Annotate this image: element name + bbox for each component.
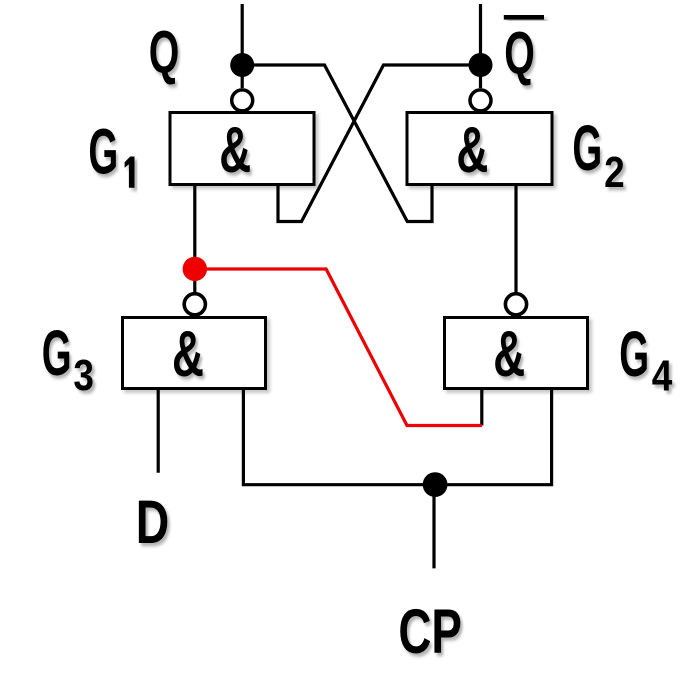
wire: cross-couple from node Qbar to G1 bottom input (278, 65, 481, 222)
inverter bubble at G2 top input (470, 90, 491, 111)
svg-text:3: 3 (73, 350, 94, 400)
svg-text:CP: CP (398, 596, 462, 667)
svg-text:Q: Q (149, 18, 180, 85)
wire: G4 bottom-left stub (480, 388, 483, 425)
inverter bubble at G3 top input (184, 294, 205, 315)
wire: D input stub below G3 (157, 388, 160, 473)
label G4 (619, 319, 673, 400)
label Qbar Q glyph (504, 19, 535, 86)
node CP junction dot (423, 472, 448, 497)
ampersand label of G2 (456, 114, 488, 187)
svg-text:&: & (172, 318, 204, 391)
wire: G1 output down to G3 input bubble (193, 185, 196, 301)
svg-text:&: & (493, 318, 525, 391)
inverter bubble at G1 top input (232, 90, 253, 111)
wire: cross-couple from node Q to G2 bottom input (242, 65, 432, 222)
svg-text:&: & (219, 114, 251, 187)
wire: G2 output down to G4 input bubble (514, 185, 517, 301)
svg-text:4: 4 (652, 351, 673, 401)
red node dot at G1 output (183, 257, 207, 281)
gate G1 box (NAND &) (170, 113, 314, 185)
node Q junction dot (230, 53, 254, 77)
svg-text:G: G (88, 116, 118, 188)
wire: CP bus G3 right stub, horizontal run, G4 right stub (243, 388, 551, 484)
wire: Q output lead (top left vertical) (241, 4, 244, 88)
gate G2 box (NAND &) (407, 113, 552, 185)
label G1 (88, 116, 134, 188)
label G3 (42, 318, 94, 400)
node Qbar junction dot (469, 53, 493, 77)
wire: red feedback from G1 output node to G4 input (highlighted) (195, 269, 482, 426)
gate G4 box (NAND &) (445, 318, 588, 389)
svg-text:&: & (456, 114, 488, 187)
label D (136, 489, 169, 557)
svg-text:G: G (619, 319, 649, 391)
ampersand label of G3 (172, 318, 204, 391)
ampersand label of G1 (219, 114, 251, 187)
ampersand label of G4 (493, 318, 525, 391)
svg-text:G: G (572, 113, 602, 185)
gate G3 box (NAND &) (123, 318, 266, 389)
label CP (398, 596, 462, 667)
svg-text:2: 2 (604, 147, 625, 197)
label Q (149, 18, 180, 85)
svg-text:D: D (136, 489, 169, 557)
wire: CP input lead below junction (432, 485, 435, 569)
svg-text:Q: Q (504, 19, 535, 86)
label G2 (572, 113, 624, 196)
label Qbar overbar (504, 15, 544, 20)
svg-text:G: G (42, 318, 72, 390)
inverter bubble at G4 top input (505, 294, 526, 315)
wire: Qbar output lead (top right vertical) (479, 4, 482, 88)
